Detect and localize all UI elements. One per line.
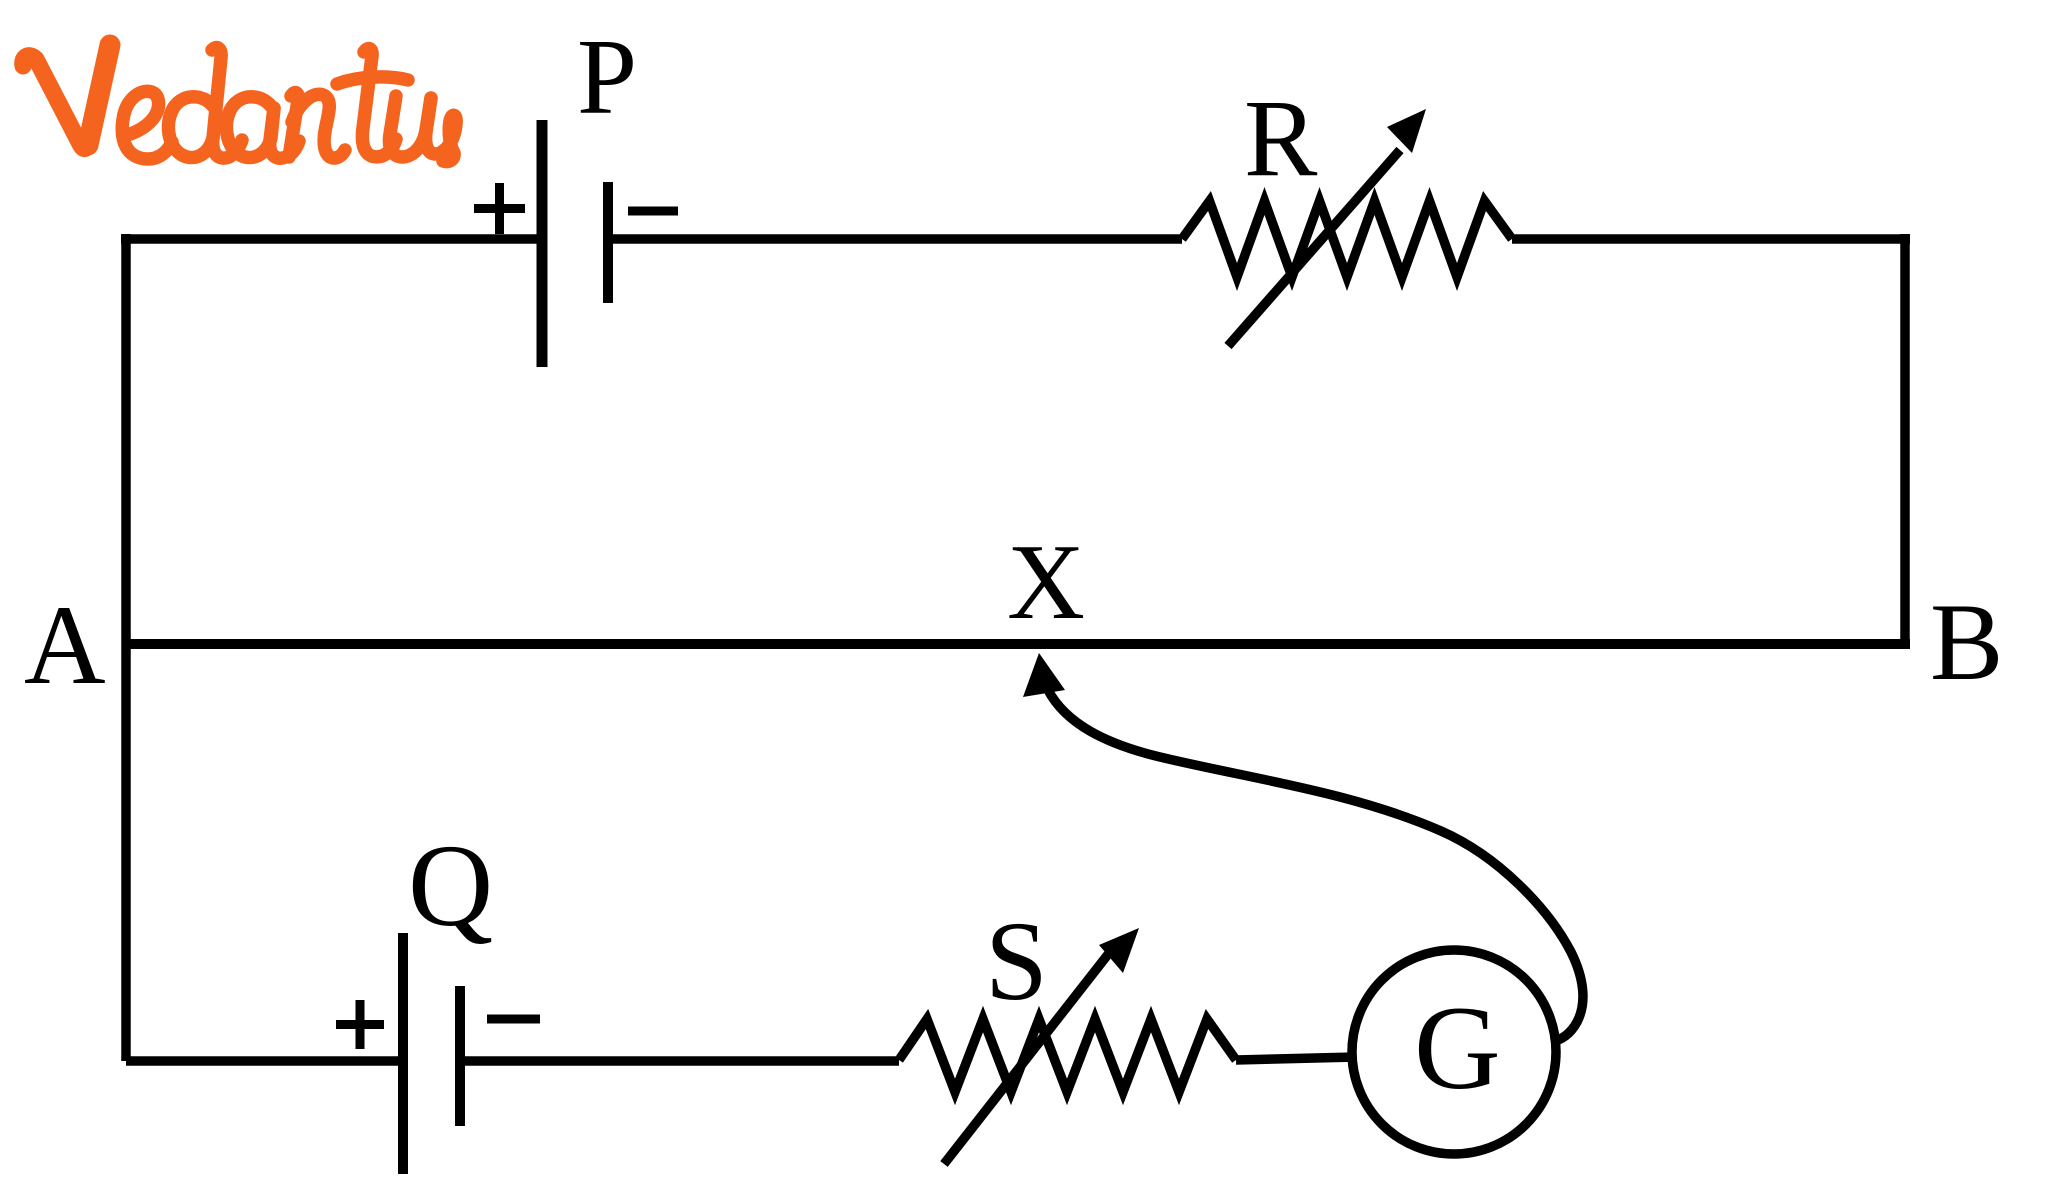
svg-text:Q: Q xyxy=(408,820,493,951)
svg-text:A: A xyxy=(24,583,106,708)
minus sign (battery P) xyxy=(628,207,678,216)
minus sign (battery Q) xyxy=(487,1015,540,1024)
Vedantu logo xyxy=(23,45,456,162)
jockey arrow head xyxy=(1023,653,1065,697)
galvanometer G circle xyxy=(1352,950,1556,1154)
rheostat R zigzag xyxy=(1182,201,1512,277)
battery Q long plate (+) xyxy=(398,933,408,1174)
battery P long plate (+) xyxy=(537,120,548,367)
wire: battery Q to rheostat S xyxy=(460,1056,899,1066)
svg-text:R: R xyxy=(1244,77,1318,199)
wire: battery P to rheostat R xyxy=(608,234,1182,244)
plus sign (battery Q) xyxy=(336,1000,384,1049)
wire: bottom-left horizontal to battery Q xyxy=(126,1056,403,1066)
svg-text:X: X xyxy=(1007,523,1085,642)
arrow of rheostat R shaft xyxy=(1228,150,1400,346)
battery Q short plate (-) xyxy=(455,986,465,1126)
wire: right vertical B column xyxy=(1900,234,1910,644)
arrow of rheostat S shaft xyxy=(944,948,1113,1164)
rheostat S zigzag xyxy=(899,1019,1236,1092)
wire: potentiometer AB xyxy=(126,639,1910,649)
jockey wire curve from galvanometer to AB wire xyxy=(1048,690,1583,1042)
plus sign (battery P) xyxy=(474,183,525,234)
arrow head of rheostat R xyxy=(1387,109,1426,153)
battery P short plate (-) xyxy=(603,182,613,303)
svg-text:S: S xyxy=(985,899,1048,1024)
wire: rheostat S to galvanometer xyxy=(1236,1057,1356,1060)
wire: left vertical A column xyxy=(121,234,131,1061)
wire: rheostat R to right corner xyxy=(1512,234,1910,244)
svg-text:P: P xyxy=(577,18,637,137)
svg-text:B: B xyxy=(1930,581,2003,703)
wire: top-left horizontal to battery P xyxy=(121,234,542,244)
svg-text:G: G xyxy=(1414,981,1501,1114)
arrow head of rheostat S xyxy=(1099,928,1139,973)
